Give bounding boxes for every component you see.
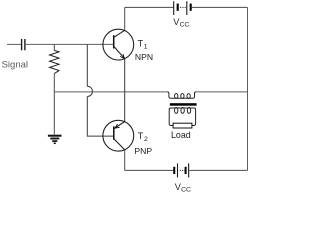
wire resistor bottom to ground [53,74,55,135]
wire primary to right rail [196,91,247,93]
wire T2 base line vertical lower [86,97,88,136]
wire T1 emitter to T2 [124,59,126,122]
wire T2 collector down [124,150,126,171]
svg-text:CC: CC [180,22,190,29]
svg-text:Load: Load [171,130,191,140]
svg-text:T: T [138,131,144,141]
wire top rail left [125,6,174,8]
load RL [173,123,192,128]
svg-text:T: T [138,38,144,48]
transformer TR1 secondary [171,107,195,109]
wire to T2 base [87,135,114,137]
battery B2 bottom [174,163,188,177]
transistor T2 (PNP) [103,120,134,151]
wire mid node (resistor node to transformer primary) [54,91,167,93]
battery B1 top [174,1,191,15]
wire bottom rail right [189,169,247,171]
svg-text:2: 2 [144,136,148,143]
wire T2 base line vertical upper [86,44,88,86]
svg-text:Signal: Signal [2,60,28,71]
wire top rail right [192,6,248,8]
wire hop over mid wire [87,86,92,96]
wire signal input [7,43,21,45]
wire bottom rail left [125,169,174,171]
arrow T1 emitter [120,54,124,58]
svg-text:1: 1 [144,44,148,51]
svg-text:NPN: NPN [135,52,153,62]
wire resistor top lead [53,44,55,50]
capacitor C1 [21,39,23,50]
wire secondary loop to load [169,108,195,126]
arrow T2 emitter [115,124,120,128]
wire capacitor to T1 base [26,43,114,45]
transformer TR1 primary [167,92,196,98]
ground [48,136,62,144]
wire right rail [247,7,249,170]
svg-text:CC: CC [181,186,191,193]
resistor R1 [50,50,59,73]
transistor T1 (NPN) [103,29,134,60]
svg-text:PNP: PNP [134,146,152,156]
wire T1 collector up [124,7,126,30]
transformer core [170,103,197,106]
